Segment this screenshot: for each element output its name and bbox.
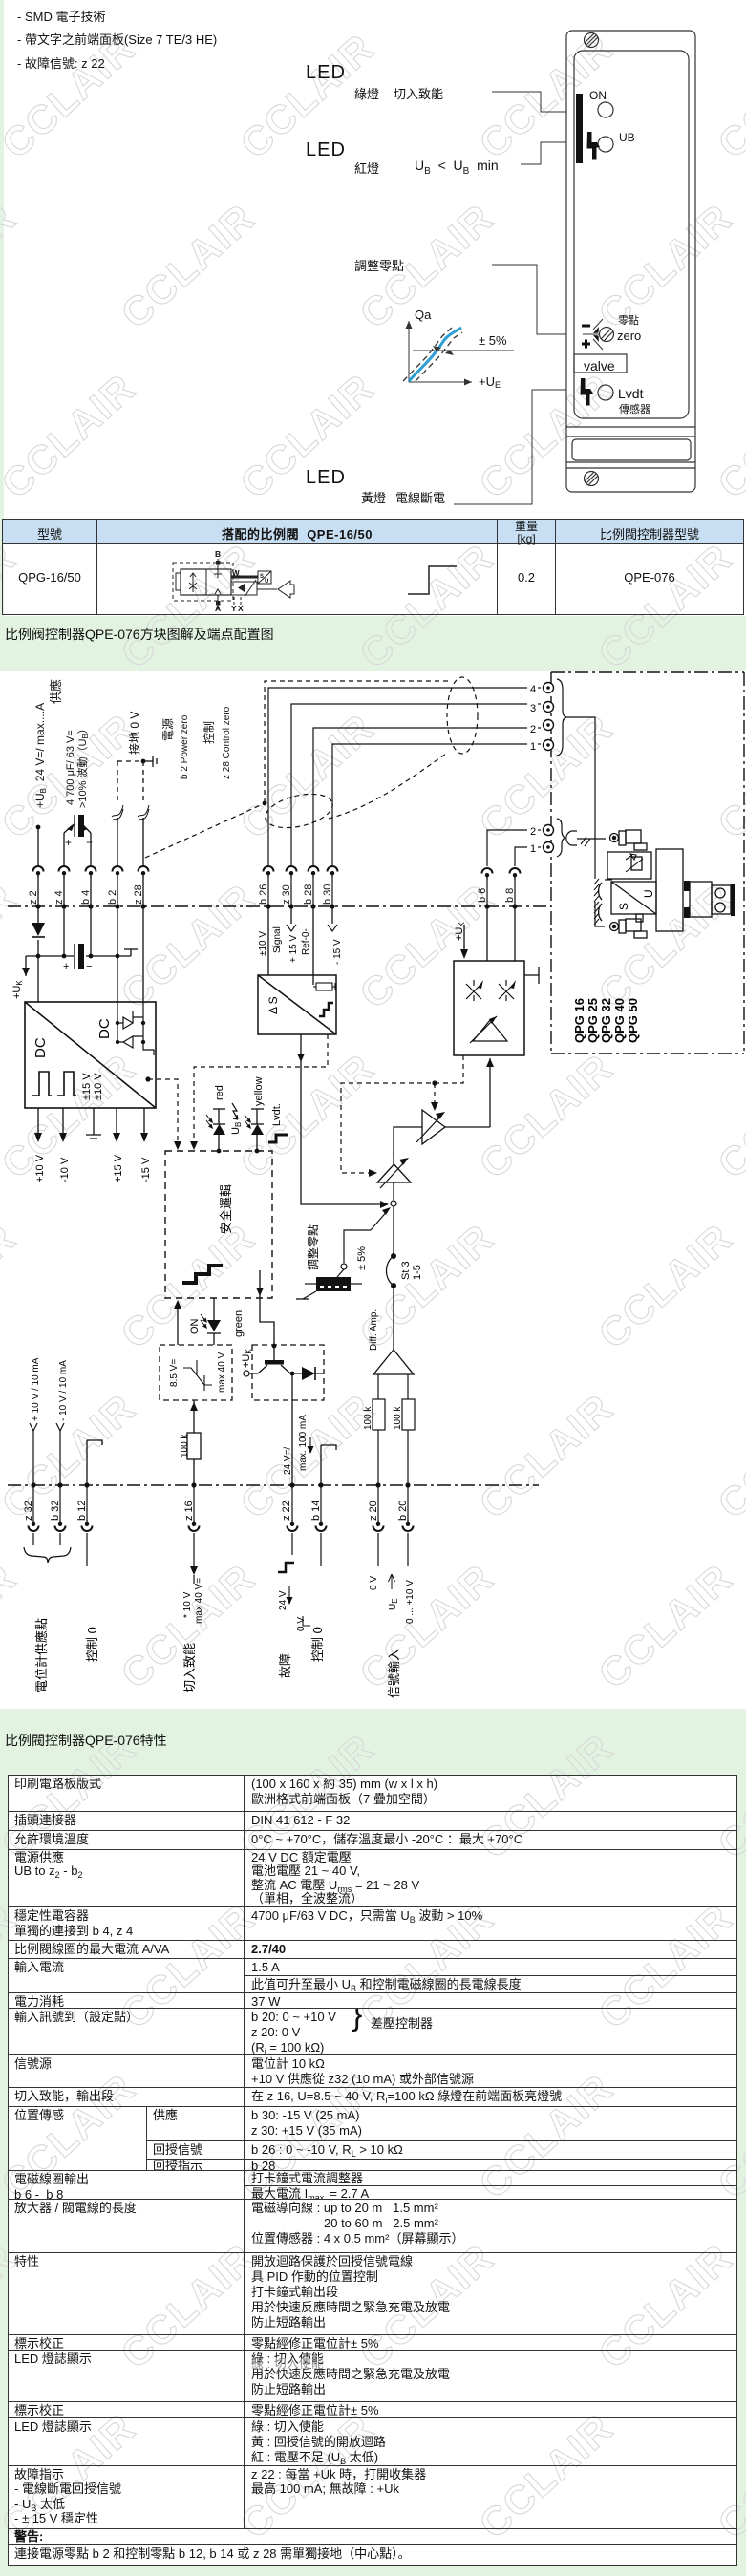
transistor dashed box — [252, 1345, 324, 1400]
svg-text:z 22: z 22 — [281, 1501, 292, 1521]
solenoid valve assembly — [607, 830, 731, 938]
svg-text:-10 V: -10 V — [59, 1157, 71, 1182]
valve connector terminals 4,3,2,1 — [544, 683, 554, 693]
brace under z32/b32 — [24, 1547, 71, 1563]
input waveforms — [32, 1072, 76, 1096]
svg-text:UB: UB — [230, 1122, 243, 1135]
svg-text:0 V: 0 V — [296, 1617, 307, 1631]
DC/DC converter box — [25, 1002, 156, 1108]
resistor in box — [316, 983, 332, 990]
z22 wire down — [291, 1373, 293, 1485]
svg-text:b 26: b 26 — [258, 884, 269, 905]
svg-text:0 V: 0 V — [369, 1576, 379, 1590]
wire from brace to shield ground — [566, 717, 595, 879]
svg-text:電源: 電源 — [161, 718, 175, 741]
QPG list — [572, 998, 640, 1043]
svg-text:4: 4 — [530, 684, 536, 695]
svg-text:b 32: b 32 — [50, 1501, 61, 1521]
svg-text:+: + — [65, 836, 72, 849]
svg-text:X: X — [238, 604, 244, 613]
brace group1 — [557, 679, 566, 756]
svg-text:3: 3 — [530, 703, 536, 714]
wire triangle1 left to triangle2 apex — [394, 1127, 422, 1164]
svg-text:± 5%: ± 5% — [356, 1246, 368, 1270]
b4 wire — [90, 833, 92, 865]
svg-text:UE: UE — [388, 1598, 399, 1610]
svg-text:± 5%: ± 5% — [479, 333, 507, 348]
svg-text:yellow: yellow — [253, 1076, 265, 1106]
svg-text:24 V: 24 V — [278, 1590, 288, 1610]
svg-text:控制 0: 控制 0 — [85, 1627, 99, 1662]
svg-text:調整零點: 調整零點 — [306, 1224, 320, 1270]
svg-text:±10 V: ±10 V — [93, 1073, 104, 1100]
svg-text:b 30: b 30 — [322, 884, 333, 905]
output stage box — [454, 906, 539, 1055]
svg-text:* 10 V: * 10 V — [182, 1591, 193, 1618]
svg-text:1: 1 — [530, 741, 536, 753]
svg-text:QPG 40: QPG 40 — [612, 998, 627, 1043]
svg-text:z 28: z 28 — [133, 884, 144, 905]
svg-text:100 k: 100 k — [393, 1406, 403, 1430]
terminals 2,1 group2 — [544, 825, 554, 836]
svg-text:控制: 控制 — [202, 721, 216, 744]
svg-text:UB: UB — [619, 131, 635, 144]
valve symbol + step in table — [0, 519, 746, 613]
lightning Lvdt — [581, 378, 594, 406]
svg-text:z 16: z 16 — [183, 1501, 195, 1521]
svg-text:z 32: z 32 — [23, 1501, 34, 1521]
rail capacitor — [74, 944, 75, 969]
svg-text:+: + — [63, 961, 69, 972]
svg-text:red: red — [214, 1085, 225, 1100]
bottom chinese labels — [34, 1618, 401, 1698]
z32/b32 supply arrows — [30, 1423, 64, 1485]
svg-text:b 28: b 28 — [303, 884, 314, 905]
svg-text:電位計供應點: 電位計供應點 — [34, 1618, 49, 1692]
section titles — [5, 625, 274, 644]
safety logic dashed box — [165, 1151, 272, 1298]
svg-text:QPG 25: QPG 25 — [586, 998, 600, 1043]
svg-text:z 30: z 30 — [281, 884, 292, 905]
svg-text:green: green — [233, 1310, 245, 1337]
zero adjust arrows — [583, 333, 599, 335]
screw top — [585, 33, 599, 48]
svg-text:1: 1 — [530, 843, 536, 855]
lightning UB — [587, 132, 601, 160]
svg-text:100 k: 100 k — [363, 1406, 373, 1430]
green LED branch + ON — [213, 1298, 215, 1320]
+Uk arrow down — [25, 956, 27, 976]
ON led circle — [598, 102, 613, 117]
svg-text:b 20: b 20 — [397, 1501, 409, 1521]
bottom junction dots — [31, 1482, 410, 1487]
svg-text:±10 V: ±10 V — [258, 931, 268, 956]
screw bottom — [585, 472, 599, 486]
svg-text:Ref-0-: Ref-0- — [301, 928, 311, 955]
svg-text:+UE: +UE — [479, 374, 501, 390]
svg-text:100 k: 100 k — [180, 1434, 190, 1458]
labels under b26..b30 — [258, 925, 343, 965]
svg-text:max 40 V: max 40 V — [217, 1352, 227, 1393]
b6 b8 wires up to valve terminals — [487, 830, 527, 866]
svg-text:+UK: +UK — [11, 980, 24, 999]
table 1 — [2, 519, 744, 615]
card slot — [572, 439, 691, 460]
pot wiper to switch — [344, 1230, 371, 1263]
svg-text:Lvdt.: Lvdt. — [271, 1103, 283, 1126]
dashed diagonal z28 to cable — [145, 803, 265, 858]
svg-text:QPG 32: QPG 32 — [599, 998, 613, 1043]
ground at 0V ref — [143, 756, 157, 767]
top-left rotated labels — [33, 679, 232, 808]
valve dash-dot box — [551, 672, 744, 1054]
svg-text:b 6: b 6 — [477, 888, 488, 903]
z2 diode — [32, 923, 45, 936]
z22 below: step + labels — [278, 1563, 294, 1572]
dash-dot connector line top — [8, 905, 551, 907]
shield dashed outline — [265, 681, 449, 803]
svg-text:2: 2 — [530, 724, 536, 735]
svg-text:傳感器: 傳感器 — [619, 403, 650, 415]
svg-text:-15 V: -15 V — [140, 1157, 152, 1182]
svg-text:+ 15 V: + 15 V — [288, 934, 299, 963]
svg-text:+UK: +UK — [454, 922, 466, 941]
triangle amp 1 (horizontal, apex right) — [422, 1110, 445, 1144]
top svg: panel + wires + graph — [0, 0, 746, 519]
cable bundle wires to valve connector — [262, 677, 541, 906]
svg-text:Qa: Qa — [415, 308, 432, 322]
svg-text:Diff. Amp.: Diff. Amp. — [369, 1309, 379, 1351]
svg-text:ON: ON — [189, 1318, 201, 1334]
cap 4700uF top — [64, 825, 73, 833]
svg-text:切入致能: 切入致能 — [182, 1643, 197, 1692]
svg-text:Δ S: Δ S — [266, 996, 280, 1014]
junction dots top row — [35, 904, 517, 908]
svg-text:B: B — [215, 549, 221, 559]
z16 below labels — [190, 1566, 198, 1575]
wire zero adjust — [492, 265, 566, 334]
svg-text:控制 0: 控制 0 — [310, 1627, 325, 1662]
svg-text:故障: 故障 — [278, 1653, 292, 1678]
svg-text:b 2 Power zero: b 2 Power zero — [180, 714, 190, 779]
backgrounds — [0, 0, 4, 616]
zero arrowheads — [593, 327, 599, 333]
svg-text:+UK: +UK — [241, 1349, 253, 1368]
svg-text:S: S — [617, 903, 630, 910]
front panel outer — [566, 31, 695, 492]
svg-text:1-5: 1-5 — [412, 1265, 423, 1280]
wire LED red — [521, 142, 566, 164]
Qa graph — [403, 321, 514, 382]
wire safety box to transistor — [259, 1270, 261, 1298]
b14 — [321, 1445, 336, 1450]
St3 switch — [391, 1253, 396, 1259]
red/yellow LEDs — [213, 1109, 264, 1151]
svg-text:A: A — [215, 604, 221, 613]
potentiometer — [337, 1269, 344, 1277]
svg-text:接地 0 V: 接地 0 V — [127, 712, 141, 755]
svg-text:QPG 50: QPG 50 — [626, 998, 640, 1043]
delta-S box — [258, 975, 336, 1034]
cable entry symbol — [566, 831, 577, 845]
UB led circle — [598, 137, 613, 152]
z4 wire — [63, 833, 65, 865]
up arrow into safety box bottom — [177, 1304, 179, 1345]
svg-text:QPG 16: QPG 16 — [572, 998, 586, 1043]
delta-S output wire to switch — [301, 1034, 385, 1204]
svg-text:b 4: b 4 — [80, 890, 92, 905]
shield ground symbols near S/U — [599, 883, 602, 900]
panel inner window — [574, 51, 689, 418]
svg-text:S: S — [260, 574, 264, 580]
svg-text:−: − — [86, 961, 92, 972]
amp triangle in box — [473, 1020, 507, 1041]
solid wire output-box bottom to triangle1 — [445, 1058, 490, 1127]
svg-text:+UB 24 V=/ max....A: +UB 24 V=/ max....A — [33, 703, 48, 808]
b2 wire with break — [117, 761, 143, 906]
dashed controls into safety box — [148, 1034, 328, 1146]
zero screw — [600, 328, 614, 342]
bottom terminal labels — [23, 1501, 409, 1521]
svg-text:±15 V: ±15 V — [81, 1073, 93, 1100]
svg-text:zero: zero — [617, 329, 641, 343]
svg-text:+10 V: +10 V — [34, 1154, 46, 1182]
top terminals — [33, 866, 44, 878]
svg-text:z 2: z 2 — [28, 890, 39, 905]
valve box — [574, 354, 627, 373]
svg-text:4 700 μF/ 63 V=: 4 700 μF/ 63 V= — [65, 730, 76, 805]
svg-text:Lvdt: Lvdt — [618, 386, 644, 401]
wire LED green — [492, 92, 566, 112]
svg-text:b 14: b 14 — [310, 1501, 322, 1521]
svg-text:信號輸入: 信號輸入 — [387, 1649, 401, 1698]
svg-text:z 20: z 20 — [368, 1501, 379, 1521]
switch wiper — [393, 1182, 394, 1200]
svg-text:U: U — [642, 889, 655, 898]
wire LED yellow — [454, 390, 566, 504]
svg-text:+ 10 V / 10 mA: + 10 V / 10 mA — [31, 1357, 41, 1421]
svg-text:z 4: z 4 — [53, 890, 65, 905]
internal diodes b2/z28 — [117, 1002, 154, 1055]
svg-text:ON: ON — [589, 89, 607, 102]
bottom wires + terminals — [33, 1485, 408, 1571]
ON black bar — [576, 94, 583, 163]
b12 ground stub — [87, 1440, 102, 1485]
svg-text:8.5 V=: 8.5 V= — [169, 1359, 180, 1387]
rail ground — [130, 949, 132, 956]
svg-text:St 3: St 3 — [400, 1261, 412, 1280]
svg-text:安全邏輯: 安全邏輯 — [219, 1184, 233, 1234]
power rail — [26, 955, 74, 957]
svg-text:max. 100 mA: max. 100 mA — [298, 1415, 309, 1471]
svg-text:b 8: b 8 — [504, 888, 516, 903]
svg-text:24 V=/: 24 V=/ — [283, 1447, 293, 1475]
dash-dot connector line bottom — [8, 1484, 539, 1486]
svg-text:U: U — [265, 579, 268, 585]
svg-text:DC: DC — [32, 1037, 49, 1058]
wires into DC box — [117, 956, 118, 1002]
svg-text:valve: valve — [584, 358, 615, 373]
svg-text:max 40 V=: max 40 V= — [194, 1578, 204, 1624]
z16 resistor chain — [193, 1400, 195, 1433]
svg-text:零點: 零點 — [618, 314, 639, 327]
svg-text:b 2: b 2 — [107, 890, 118, 905]
svg-text:Y: Y — [231, 604, 237, 613]
z2 wire — [36, 815, 91, 906]
Lvdt circle — [598, 385, 613, 400]
svg-text:2: 2 — [530, 826, 536, 838]
dashed feedback: output box bottom to safety logic — [341, 1055, 463, 1173]
svg-text:Signal: Signal — [272, 926, 283, 953]
svg-text:供應: 供應 — [49, 679, 63, 704]
svg-text:- 15 V: - 15 V — [332, 939, 343, 965]
svg-text:W: W — [232, 569, 240, 578]
z28 wire with break — [142, 818, 144, 865]
svg-text:- 10 V / 10 mA: - 10 V / 10 mA — [58, 1360, 69, 1421]
svg-text:+15 V: +15 V — [113, 1154, 124, 1182]
wires into delta-S box — [258, 906, 336, 1034]
svg-text:−: − — [86, 836, 93, 849]
svg-text:DC: DC — [96, 1018, 113, 1039]
optocoupler arrows in box — [466, 980, 514, 1001]
panel lines — [566, 426, 695, 428]
svg-text:b 12: b 12 — [76, 1501, 88, 1521]
svg-text:0 ... +10 V: 0 ... +10 V — [405, 1580, 416, 1624]
svg-text:z 28 Control zero: z 28 Control zero — [222, 706, 232, 779]
power section below connector — [26, 906, 143, 1002]
8.5V dashed box — [160, 1345, 232, 1400]
DC outputs — [38, 1108, 144, 1139]
svg-text:>10% 波動（UB）: >10% 波動（UB） — [75, 723, 90, 808]
triangle amp 2 (apex up) — [377, 1164, 411, 1182]
